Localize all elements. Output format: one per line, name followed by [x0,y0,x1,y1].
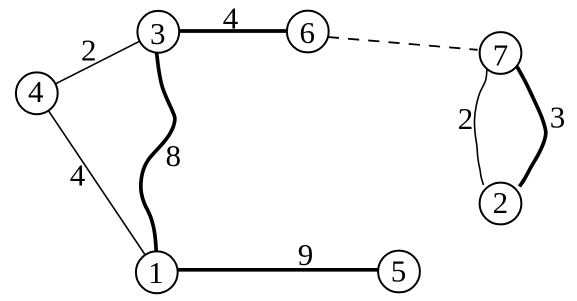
svg-text:2: 2 [493,185,509,220]
svg-text:9: 9 [298,237,314,272]
svg-text:8: 8 [165,138,181,173]
svg-text:4: 4 [223,1,239,36]
svg-text:3: 3 [150,16,166,51]
svg-text:3: 3 [550,99,566,134]
svg-text:7: 7 [493,37,509,72]
svg-text:1: 1 [148,255,164,290]
svg-text:2: 2 [81,33,97,68]
svg-text:6: 6 [299,15,315,50]
svg-text:2: 2 [458,101,474,136]
svg-text:4: 4 [70,157,86,192]
svg-text:4: 4 [28,74,44,109]
svg-text:5: 5 [391,254,407,289]
